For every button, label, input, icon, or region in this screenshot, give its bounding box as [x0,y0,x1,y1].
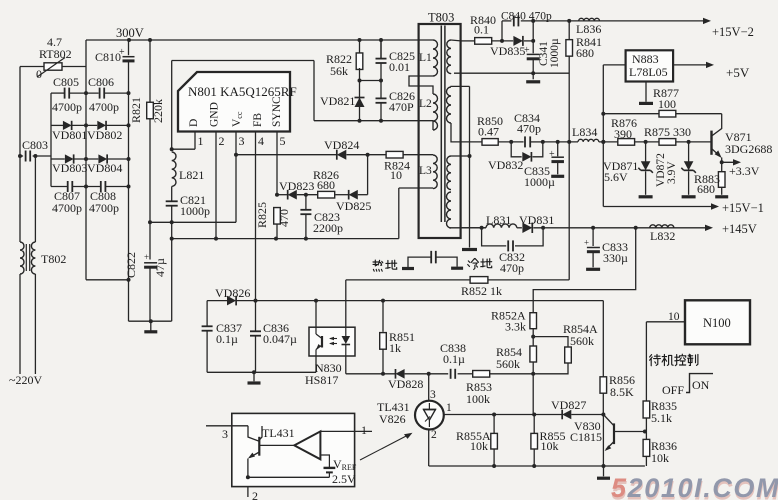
svg-text:VD803: VD803 [52,161,87,175]
svg-text:2: 2 [431,429,437,441]
svg-text:680: 680 [317,178,335,192]
svg-text:4: 4 [258,134,264,148]
svg-text:T803: T803 [428,11,454,25]
svg-text:L836: L836 [576,22,601,36]
svg-text:4700p: 4700p [89,201,119,215]
svg-text:VD823: VD823 [279,179,314,193]
svg-text:T802: T802 [41,252,66,266]
svg-text:47µ: 47µ [153,258,167,277]
svg-text:2.5V: 2.5V [332,472,356,486]
svg-text:~220V: ~220V [9,373,42,387]
svg-text:3.9V: 3.9V [666,161,678,184]
svg-text:C805: C805 [53,75,79,89]
svg-text:R875 330: R875 330 [644,125,691,139]
svg-text:L831: L831 [486,213,511,227]
svg-text:4700p: 4700p [52,201,82,215]
svg-text:TL431: TL431 [262,426,295,440]
svg-text:+: + [524,45,530,56]
svg-text:330µ: 330µ [603,251,628,265]
svg-text:4700p: 4700p [89,100,119,114]
svg-text:10: 10 [668,311,680,323]
svg-text:C806: C806 [88,75,114,89]
svg-text:FB: FB [252,113,264,127]
svg-text:3: 3 [222,427,228,441]
svg-text:0.47: 0.47 [478,125,499,139]
svg-text:R852 1k: R852 1k [461,284,502,298]
svg-text:+: + [584,238,589,248]
svg-text:470p: 470p [517,122,541,136]
svg-text:100k: 100k [466,392,490,406]
svg-text:VD824: VD824 [324,138,359,152]
svg-text:390: 390 [614,127,632,141]
svg-text:+145V: +145V [722,222,757,236]
svg-text:560k: 560k [570,334,594,348]
svg-text:L1: L1 [419,52,432,64]
svg-text:VD832: VD832 [488,158,523,172]
svg-text:C840 470p: C840 470p [501,11,552,23]
svg-text:+5V: +5V [726,65,750,80]
svg-text:0.01: 0.01 [389,60,410,74]
svg-text:1: 1 [198,134,204,148]
svg-text:5.1k: 5.1k [651,411,672,425]
svg-text:5: 5 [280,134,286,148]
svg-text:VD825: VD825 [336,199,371,213]
svg-text:0: 0 [36,67,42,81]
svg-text:3.3k: 3.3k [505,320,526,334]
svg-text:VD821: VD821 [320,94,355,108]
svg-text:L78L05: L78L05 [629,65,668,79]
svg-text:8.5K: 8.5K [610,385,634,399]
svg-text:+15V−2: +15V−2 [712,25,754,39]
svg-text:10k: 10k [651,451,669,465]
svg-text:C803: C803 [22,138,48,152]
svg-text:470p: 470p [500,261,524,275]
svg-text:1: 1 [361,423,367,437]
svg-text:470: 470 [277,209,291,227]
svg-text:HS817: HS817 [305,373,338,387]
svg-text:L834: L834 [572,125,597,139]
svg-text:N100: N100 [703,316,731,330]
svg-text:52010I.COM: 52010I.COM [611,473,778,500]
svg-text:C810: C810 [95,50,121,64]
svg-text:10k: 10k [541,439,559,453]
svg-text:+3.3V: +3.3V [729,164,760,178]
svg-text:2: 2 [219,134,225,148]
svg-text:680: 680 [576,46,594,60]
svg-text:VD831: VD831 [519,213,554,227]
svg-text:RT802: RT802 [39,47,72,61]
svg-text:56k: 56k [330,64,348,78]
svg-text:D: D [188,119,200,127]
svg-text:1000µ: 1000µ [549,38,561,68]
svg-text:R825: R825 [255,202,269,228]
svg-text:300V: 300V [116,26,144,40]
svg-text:N883: N883 [632,52,659,66]
svg-text:L821: L821 [179,168,204,182]
svg-text:4700p: 4700p [52,100,82,114]
svg-text:+: + [144,252,149,262]
svg-text:+: + [549,149,555,160]
svg-text:220k: 220k [151,99,165,123]
svg-text:SYNC: SYNC [271,96,283,127]
svg-text:5.6V: 5.6V [604,170,628,184]
svg-text:ON: ON [692,378,710,392]
svg-text:2200p: 2200p [313,221,343,235]
svg-text:680: 680 [697,182,715,196]
svg-text:3: 3 [430,389,436,401]
svg-text:3: 3 [239,134,245,148]
svg-text:0.1: 0.1 [474,23,489,37]
svg-text:VD826: VD826 [215,286,250,300]
svg-text:1000p: 1000p [180,204,210,218]
svg-text:+15V−1: +15V−1 [722,201,764,215]
svg-text:10: 10 [390,168,402,182]
svg-text:L2: L2 [419,98,432,110]
svg-text:VD835: VD835 [490,44,525,58]
svg-text:560k: 560k [496,357,520,371]
svg-text:L832: L832 [650,229,675,243]
svg-text:3DG2688: 3DG2688 [725,142,772,156]
svg-text:100: 100 [658,97,676,111]
svg-text:1000µ: 1000µ [524,175,555,189]
svg-text:0.1µ: 0.1µ [216,332,238,346]
svg-text:VD801: VD801 [52,128,87,142]
svg-text:L3: L3 [419,165,432,177]
svg-text:10k: 10k [470,439,488,453]
svg-text:VD827: VD827 [551,398,586,412]
svg-text:GND: GND [209,102,221,127]
svg-text:VD828: VD828 [388,377,423,391]
svg-text:+: + [119,47,125,58]
svg-text:C822: C822 [124,252,138,278]
svg-text:1k: 1k [389,341,401,355]
svg-text:V826: V826 [379,412,406,426]
svg-text:0.1µ: 0.1µ [443,352,465,366]
svg-text:OFF: OFF [662,383,684,397]
svg-text:VD802: VD802 [87,128,122,142]
svg-text:VD804: VD804 [87,161,122,175]
svg-text:C1815: C1815 [570,430,602,444]
svg-text:470P: 470P [389,100,414,114]
svg-text:R821: R821 [129,97,143,123]
svg-text:1: 1 [446,402,452,414]
svg-text:2: 2 [252,489,258,500]
svg-text:0.047µ: 0.047µ [263,332,297,346]
